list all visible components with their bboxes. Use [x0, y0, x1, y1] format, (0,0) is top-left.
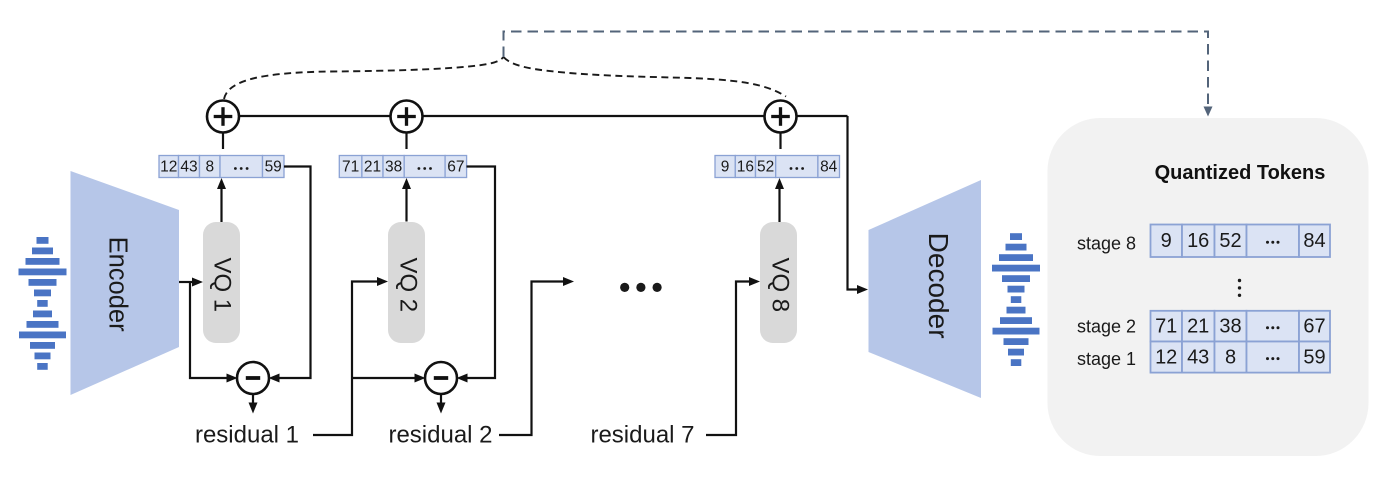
svg-text:VQ 8: VQ 8: [766, 257, 793, 312]
svg-text:43: 43: [180, 159, 197, 176]
svg-text:9: 9: [721, 159, 730, 176]
svg-text:residual 7: residual 7: [590, 421, 694, 448]
svg-text:16: 16: [737, 159, 754, 176]
svg-text:Decoder: Decoder: [923, 233, 954, 339]
svg-text:stage 2: stage 2: [1077, 317, 1136, 337]
svg-text:9: 9: [1161, 230, 1172, 252]
svg-text:52: 52: [1219, 230, 1241, 252]
svg-text:84: 84: [1303, 230, 1325, 252]
svg-text:12: 12: [1155, 347, 1177, 369]
svg-text:8: 8: [205, 159, 214, 176]
svg-text:43: 43: [1187, 347, 1209, 369]
svg-text:21: 21: [1187, 316, 1209, 338]
svg-text:67: 67: [447, 159, 464, 176]
svg-text:stage 8: stage 8: [1077, 234, 1136, 254]
svg-text:67: 67: [1303, 316, 1325, 338]
svg-text:VQ 2: VQ 2: [394, 257, 421, 312]
svg-text:16: 16: [1187, 230, 1209, 252]
svg-text:71: 71: [342, 159, 359, 176]
svg-text:Quantized Tokens: Quantized Tokens: [1155, 162, 1326, 184]
svg-text:Encoder: Encoder: [103, 237, 131, 332]
svg-text:residual 2: residual 2: [388, 421, 492, 448]
svg-text:12: 12: [160, 159, 177, 176]
svg-text:residual 1: residual 1: [195, 421, 299, 448]
svg-text:8: 8: [1225, 347, 1236, 369]
svg-text:21: 21: [364, 159, 381, 176]
svg-text:38: 38: [385, 159, 402, 176]
svg-text:stage 1: stage 1: [1077, 349, 1136, 369]
svg-text:71: 71: [1155, 316, 1177, 338]
svg-text:59: 59: [265, 159, 282, 176]
svg-text:52: 52: [757, 159, 774, 176]
svg-text:38: 38: [1219, 316, 1241, 338]
svg-text:84: 84: [820, 159, 838, 176]
svg-text:59: 59: [1303, 347, 1325, 369]
svg-text:VQ 1: VQ 1: [209, 257, 236, 312]
